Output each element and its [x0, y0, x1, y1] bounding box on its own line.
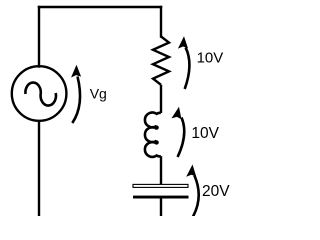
- arrow for capacitor voltage: [186, 164, 199, 220]
- arrow for Vg (curved, head up): [71, 65, 81, 123]
- inductor (3 loops): [145, 113, 161, 157]
- resistor (zigzag): [153, 37, 169, 85]
- ac source sine wave: [25, 83, 56, 106]
- wire capacitor to bottom edge: [160, 199, 162, 217]
- capacitor top plate (hollow): [133, 184, 188, 187]
- svg-text:Vg: Vg: [90, 85, 107, 101]
- ac source Vg (circle): [12, 66, 67, 121]
- svg-text:10V: 10V: [197, 50, 224, 67]
- wire resistor to inductor: [160, 85, 162, 113]
- arrow for resistor voltage: [178, 36, 190, 89]
- svg-text:20V: 20V: [202, 183, 230, 200]
- wire left lower (source to bottom edge): [38, 120, 40, 216]
- wire right upper (top wire to resistor): [160, 7, 162, 37]
- wire top horizontal: [39, 6, 161, 8]
- arrow for inductor voltage: [171, 106, 184, 157]
- svg-text:10V: 10V: [191, 125, 219, 142]
- capacitor bottom plate (solid): [133, 196, 189, 199]
- wire left upper (top wire to source): [38, 7, 40, 67]
- wire inductor to capacitor: [160, 156, 162, 185]
- inductor junction dots: [154, 125, 158, 144]
